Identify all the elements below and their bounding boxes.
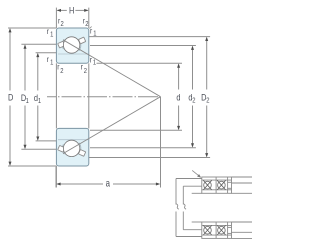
svg-text:D: D (8, 92, 13, 103)
svg-text:r: r (47, 26, 50, 36)
svg-text:H: H (69, 4, 74, 15)
svg-text:2: 2 (84, 67, 87, 75)
svg-text:1: 1 (93, 59, 96, 67)
svg-text:1: 1 (93, 30, 96, 38)
svg-text:a: a (106, 177, 110, 188)
svg-text:1: 1 (26, 97, 29, 105)
svg-text:2: 2 (60, 68, 63, 76)
svg-text:1: 1 (50, 31, 53, 39)
svg-text:r: r (57, 62, 60, 72)
svg-text:2: 2 (206, 97, 209, 105)
svg-text:r: r (47, 54, 50, 64)
svg-text:r: r (81, 62, 84, 72)
svg-text:r: r (90, 54, 93, 64)
svg-text:1: 1 (38, 97, 41, 105)
svg-text:2: 2 (61, 21, 64, 29)
svg-text:1: 1 (50, 59, 53, 67)
svg-text:d: d (176, 92, 180, 103)
svg-text:2: 2 (85, 21, 88, 29)
svg-text:2: 2 (192, 97, 195, 105)
